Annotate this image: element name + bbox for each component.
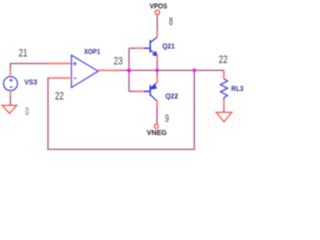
svg-text:22: 22 (219, 54, 228, 66)
pin stub: VS3 plus terminal (9, 69, 11, 76)
pin stub: op-amp + input lead (47, 63, 72, 65)
pin stub: Q22 emitter (156, 77, 158, 83)
ground symbol under RL3 (216, 112, 232, 121)
wire node 8: VPOS to Q21 collector (156, 15, 158, 32)
transistor Q22 (PNP) (144, 82, 158, 101)
resistor RL3 (221, 79, 228, 101)
svg-text:XOP1: XOP1 (84, 47, 100, 56)
svg-text:8: 8 (169, 16, 173, 28)
svg-text:Q21: Q21 (162, 41, 175, 50)
wire: RL3 to ground (223, 108, 225, 112)
pin stub: VS3 minus terminal (9, 91, 11, 97)
wire node 22: output to load RL3 (157, 70, 223, 78)
svg-text:23: 23 (114, 55, 123, 67)
pin stub: Q22 collector (156, 101, 158, 108)
svg-text:0: 0 (25, 106, 29, 118)
pin stub: Q21 emitter (156, 56, 158, 62)
junction: emitters to output wire (155, 69, 159, 73)
svg-text:Q22: Q22 (165, 92, 178, 101)
feedback wire node 22: output to inverting input (48, 70, 194, 149)
wire: top branch to Q21 base (129, 47, 136, 49)
pin stub: op-amp output lead (98, 69, 121, 71)
wire node 9: Q22 collector to VNEG (156, 107, 158, 124)
wire node 21: VS3 top to op-amp noninverting input (10, 64, 48, 71)
pin stub: Q21 collector (156, 31, 158, 37)
svg-text:VS3: VS3 (24, 78, 37, 87)
junction node 23 at branch (127, 69, 131, 73)
pin stub: Q22 base lead (136, 90, 144, 92)
pin stub: RL3 top lead (223, 71, 225, 79)
svg-text:21: 21 (19, 48, 28, 60)
ground symbol 0 under VS3 (2, 105, 17, 113)
wire: base branch vertical (128, 48, 130, 91)
svg-text:22: 22 (55, 90, 64, 102)
pin stub: RL3 bottom lead (223, 100, 225, 108)
op-amp XOP1 (72, 55, 99, 87)
pin stub: op-amp inverting input lead (48, 77, 72, 79)
wire: Q21 emitter to output node (156, 62, 158, 71)
wire: output node to Q22 emitter (156, 70, 158, 77)
wire: bottom branch to Q22 base (129, 90, 136, 92)
power terminal VNEG (154, 124, 158, 128)
wire node 23: op-amp output to driver node (121, 69, 158, 71)
wire: VS3 to ground (9, 97, 11, 106)
svg-text:RL3: RL3 (231, 84, 243, 93)
junction: feedback tap (192, 69, 196, 73)
svg-text:VPOS: VPOS (150, 4, 168, 11)
svg-text:VNEG: VNEG (147, 130, 168, 137)
power terminal VPOS (155, 10, 159, 14)
voltage source VS3 (4, 77, 18, 91)
pin stub: Q21 base lead (136, 47, 144, 49)
svg-text:9: 9 (165, 113, 169, 125)
transistor Q21 (NPN) (144, 37, 158, 56)
